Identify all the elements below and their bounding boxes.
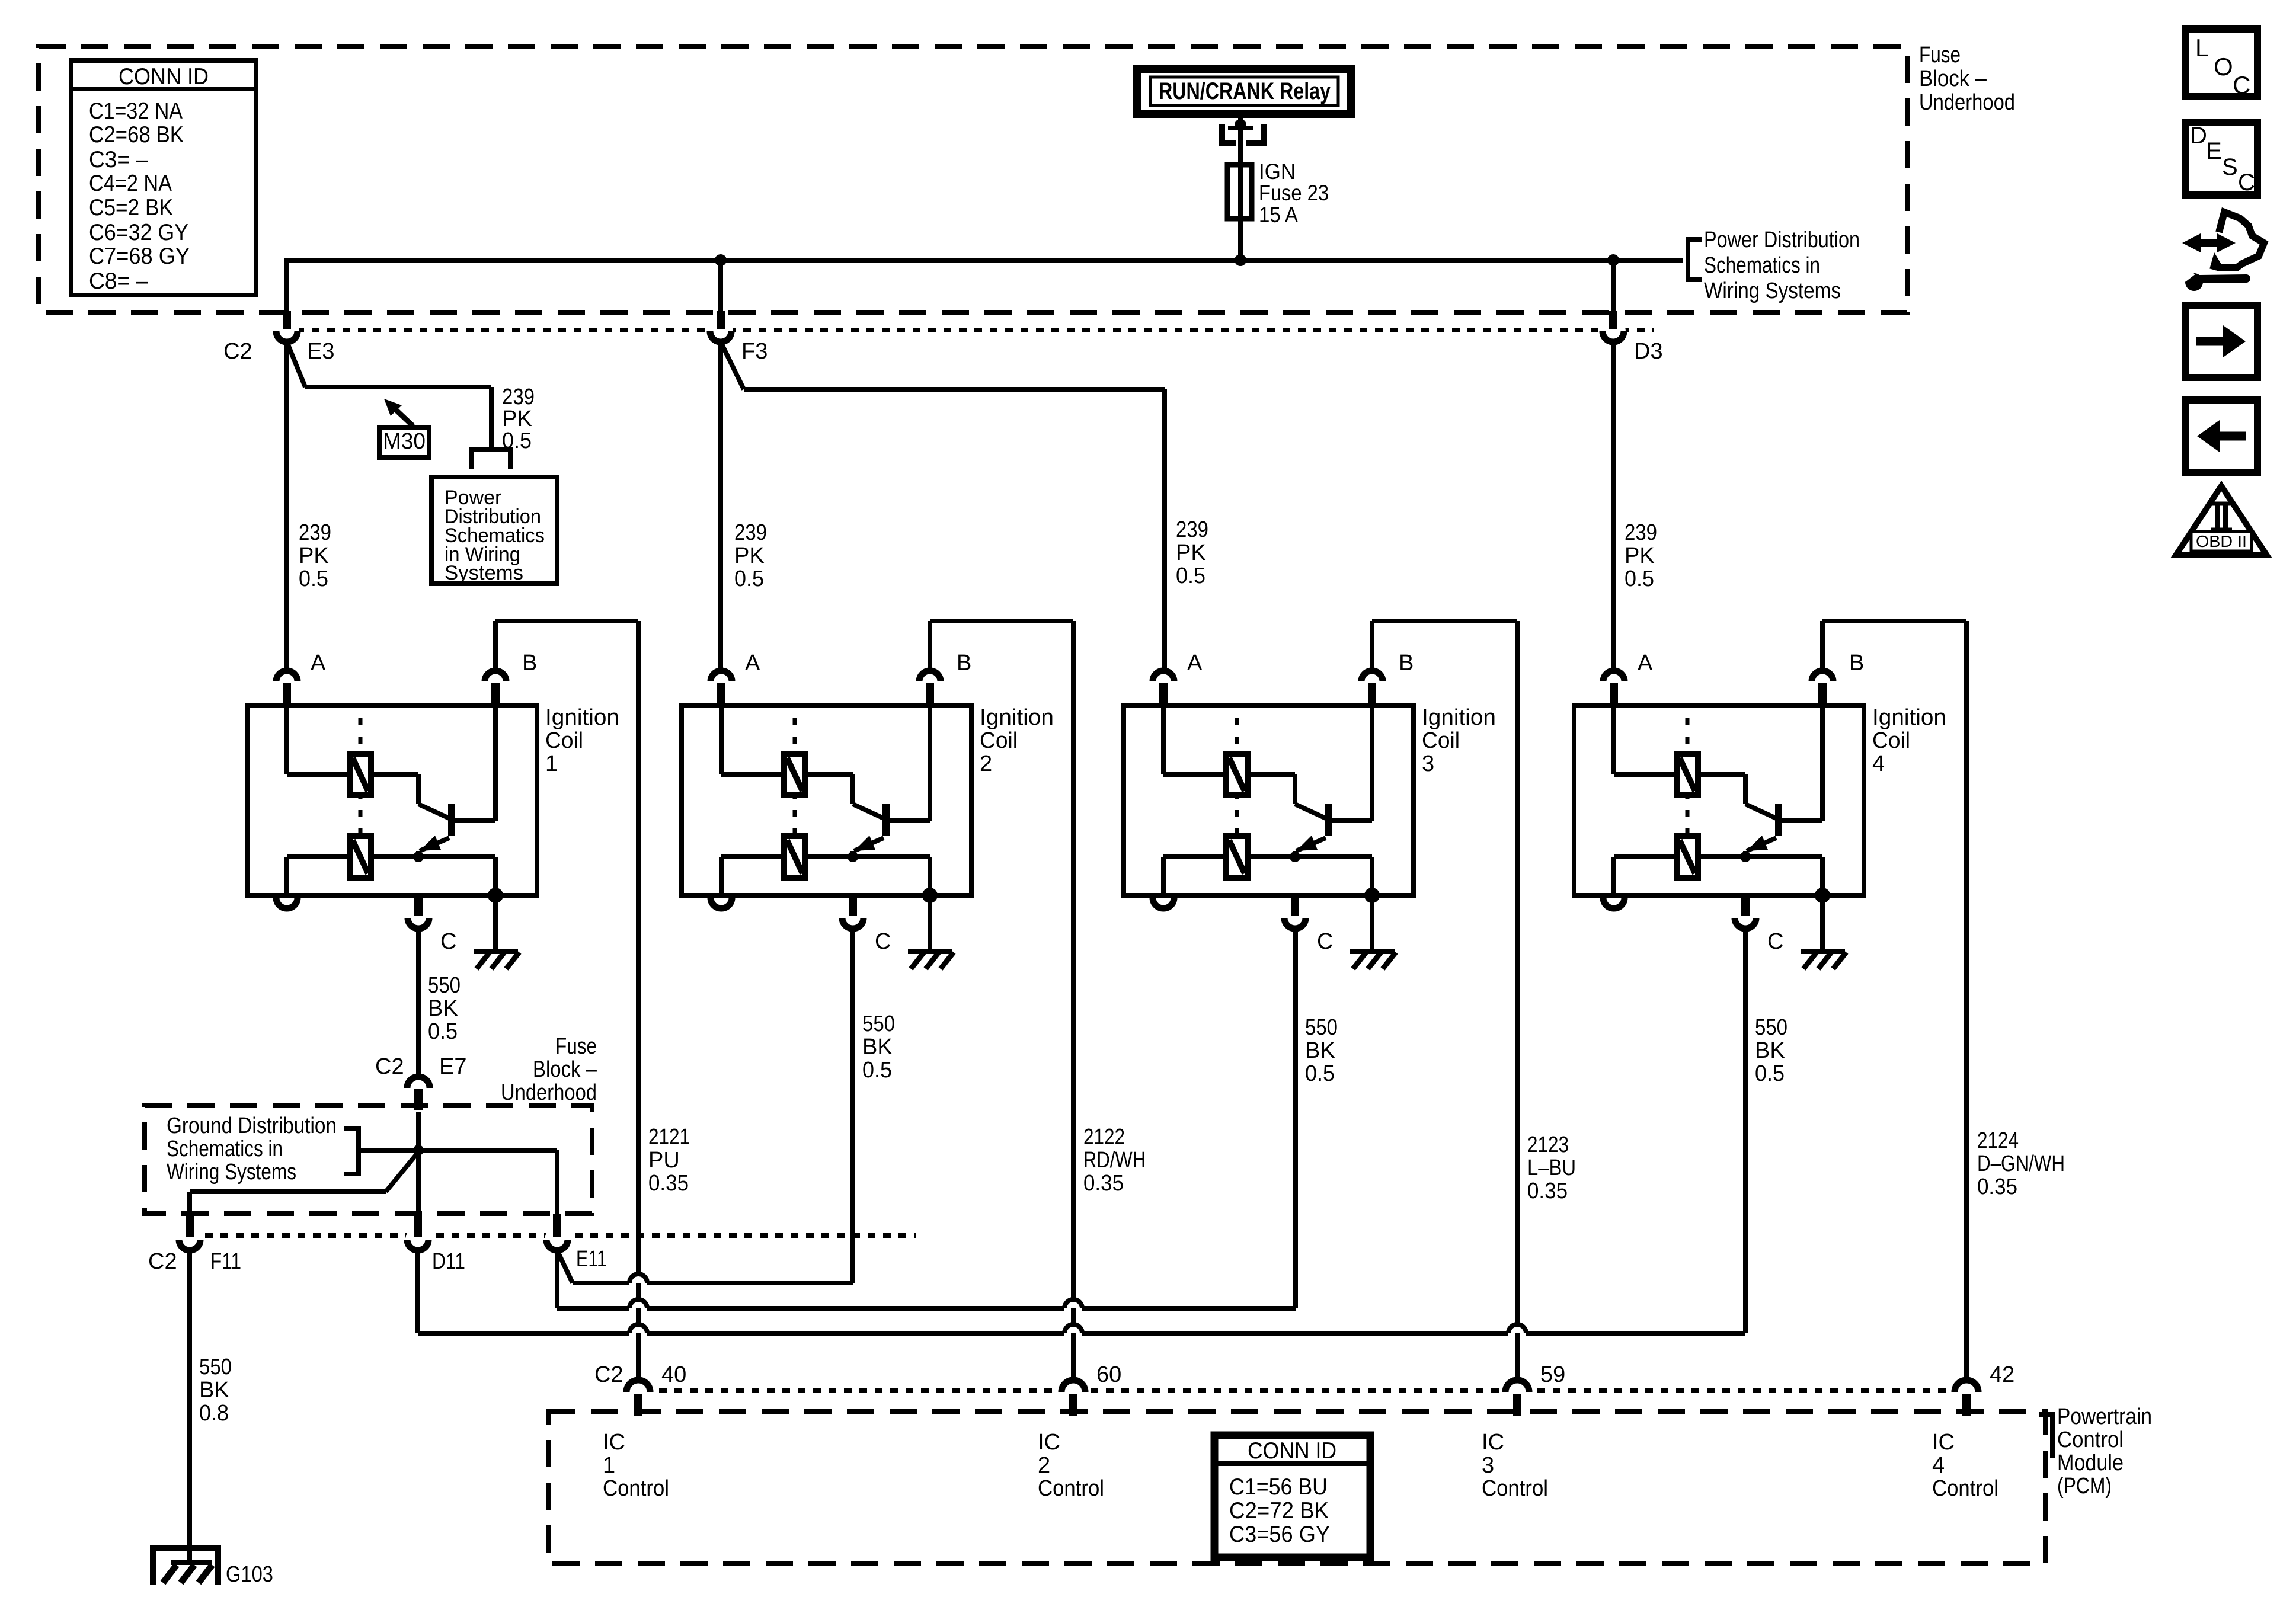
connector PCM pin 42 — [1953, 1362, 2014, 1416]
label Fuse Block - Underhood (top box) — [1919, 43, 2015, 115]
wire from relay to fuse — [1238, 114, 1243, 260]
svg-text:RD/WH: RD/WH — [1083, 1148, 1146, 1173]
connector ID table (PCM) — [1214, 1435, 1370, 1557]
svg-text:F11: F11 — [210, 1249, 241, 1274]
wire label 239 PK 0.5 (coil 1) — [299, 520, 331, 591]
wire E3 branch diagonal — [287, 342, 491, 449]
wire bus to F3 — [718, 260, 723, 313]
svg-text:C4=2 NA: C4=2 NA — [89, 171, 172, 196]
svg-text:Control: Control — [603, 1476, 669, 1501]
junction dot bus/F3 — [715, 254, 727, 266]
power distribution schematics box — [431, 477, 557, 584]
svg-text:C3= –: C3= – — [89, 147, 148, 172]
connector pin B coil 4 — [1812, 651, 1864, 705]
label ignition coil 2 — [980, 705, 1054, 776]
junction dot ground splice — [413, 1145, 424, 1156]
wire splice diagonal to F11 — [190, 1152, 418, 1215]
ground G103 — [153, 1548, 273, 1587]
transistor Q1 base bar — [448, 804, 455, 836]
PCM dashed boundary box — [548, 1411, 2045, 1564]
wire hop row2 over pin40 wire — [629, 1299, 647, 1308]
label ignition coil 3 — [1422, 705, 1496, 776]
svg-text:239: 239 — [502, 385, 535, 409]
wire coil 2 pin A to primary winding — [721, 705, 784, 774]
connector pin A coil 1 — [276, 651, 326, 705]
wire coil 1 pin C to E7 (550 BK) — [416, 929, 421, 1077]
wire label 239 PK 0.5 (coil 2) — [734, 520, 767, 591]
svg-text:IC: IC — [1038, 1430, 1060, 1455]
wire hop row3 over pin40 wire — [629, 1324, 647, 1333]
wire coil 2 transistor to pin B — [890, 705, 930, 821]
svg-text:Coil: Coil — [1872, 728, 1910, 753]
svg-text:0.5: 0.5 — [1305, 1061, 1335, 1086]
junction dot coil 4 ground node — [1815, 888, 1830, 903]
svg-text:0.5: 0.5 — [1176, 564, 1205, 588]
icon LOC box — [2185, 29, 2257, 99]
svg-text:CONN ID: CONN ID — [1248, 1438, 1336, 1464]
junction dot below relay — [1235, 119, 1246, 131]
wire coil 4 pin B to PCM (control) — [1822, 621, 1966, 1380]
connector pin A coil 2 — [711, 651, 760, 705]
svg-text:E: E — [2206, 138, 2222, 164]
connector coil 1 bottom left pin — [276, 898, 298, 908]
svg-text:Wiring Systems: Wiring Systems — [1704, 279, 1841, 303]
wire coil 3 secondary row — [1248, 857, 1372, 895]
wire coil 1 pin A to primary winding — [287, 705, 350, 774]
PCM connector C2 dotted line (row 3) — [628, 1388, 1956, 1393]
svg-text:59: 59 — [1540, 1362, 1565, 1387]
fuse block underhood dashed boundary box (lower-left) — [145, 1106, 592, 1214]
svg-text:1: 1 — [545, 751, 558, 776]
wire E11 diagonal to row 1 — [557, 1250, 573, 1283]
wire label 550 BK 0.5 (coil 2) — [862, 1012, 895, 1083]
svg-text:3: 3 — [1482, 1453, 1494, 1478]
ground row 3 wire (D11 to coil 4) — [418, 1331, 1745, 1336]
junction dot bus/D3 — [1607, 254, 1619, 266]
ignition feed bus wire — [287, 258, 1683, 263]
wire hop row3 over pin60 wire — [1064, 1324, 1082, 1333]
svg-text:C: C — [875, 929, 891, 954]
transistor Q1 emitter arrow — [418, 836, 449, 857]
svg-text:C: C — [2238, 169, 2255, 196]
svg-text:239: 239 — [734, 520, 767, 545]
svg-text:C3=56 GY: C3=56 GY — [1229, 1522, 1330, 1547]
icon OBD II triangle — [2176, 486, 2266, 555]
wire coil 1 secondary row — [371, 857, 495, 895]
connector pin E3 (fuse block C2) — [223, 311, 334, 364]
svg-text:B: B — [522, 651, 537, 676]
svg-text:Wiring Systems: Wiring Systems — [167, 1160, 296, 1185]
wire coil 4 secondary left — [1614, 857, 1677, 895]
wire coil 2 primary to transistor — [805, 774, 884, 818]
coil 1 core dashed line — [359, 718, 363, 883]
wire coil 2 pin C down (550 BK) — [850, 929, 855, 1283]
svg-text:Control: Control — [1932, 1476, 1998, 1501]
wire coil 1 pin B to PCM (control) — [495, 621, 638, 1380]
ground row 1 wire (E11 to coil 2) — [573, 1281, 853, 1285]
svg-text:A: A — [745, 651, 760, 676]
svg-text:Ground Distribution: Ground Distribution — [167, 1113, 337, 1138]
ignition coil 3 box — [1124, 705, 1414, 895]
coil 3 secondary winding — [1226, 836, 1248, 878]
svg-text:42: 42 — [1990, 1362, 2014, 1387]
wire label 2123 L-BU 0.35 — [1527, 1132, 1576, 1204]
svg-text:4: 4 — [1932, 1453, 1945, 1478]
svg-text:0.5: 0.5 — [502, 428, 532, 453]
svg-text:Systems: Systems — [445, 562, 523, 584]
connector coil 4 bottom left pin — [1603, 898, 1625, 908]
svg-text:BK: BK — [1755, 1038, 1785, 1063]
svg-text:BK: BK — [428, 996, 458, 1021]
svg-text:C2=68 BK: C2=68 BK — [89, 122, 184, 148]
svg-text:Ignition: Ignition — [545, 705, 619, 730]
svg-text:A: A — [1638, 651, 1653, 676]
svg-text:M30: M30 — [383, 429, 426, 454]
svg-text:2: 2 — [980, 751, 992, 776]
wire label 550 BK 0.5 (coil 1) — [428, 973, 461, 1044]
svg-text:E3: E3 — [307, 339, 334, 364]
connector PCM pin 40 — [594, 1362, 686, 1416]
M30 arrow — [384, 399, 413, 426]
label IC 2 Control — [1038, 1430, 1104, 1501]
icon right arrow box — [2185, 305, 2257, 377]
connector pin A coil 4 — [1603, 651, 1653, 705]
junction dot coil 2 ground node — [922, 888, 938, 903]
svg-text:D: D — [2190, 123, 2207, 149]
label fuse block underhood (lower) — [501, 1034, 597, 1105]
ground symbol coil 2 — [908, 895, 954, 969]
svg-text:IC: IC — [1482, 1430, 1504, 1455]
svg-text:550: 550 — [199, 1355, 232, 1379]
fuse F23 - IGN Fuse 23 15 A — [1227, 159, 1329, 227]
wire label 550 BK 0.5 (coil 3) — [1305, 1015, 1338, 1086]
svg-text:2122: 2122 — [1083, 1125, 1125, 1150]
svg-text:IC: IC — [1932, 1430, 1955, 1455]
wire hop row2 over pin60 wire — [1064, 1299, 1082, 1308]
svg-text:IC: IC — [603, 1430, 625, 1455]
ignition coil 2 box — [682, 705, 971, 895]
wire splice to E11 — [555, 1150, 559, 1215]
wire coil 3 primary to transistor — [1248, 774, 1326, 818]
svg-text:RUN/CRANK Relay: RUN/CRANK Relay — [1159, 78, 1331, 104]
svg-text:L: L — [2195, 34, 2209, 62]
svg-text:Control: Control — [2057, 1427, 2124, 1452]
wire coil 3 pin A to primary winding — [1163, 705, 1226, 774]
svg-text:0.8: 0.8 — [199, 1401, 229, 1426]
label powertrain control module — [2057, 1404, 2152, 1499]
svg-text:PK: PK — [734, 543, 765, 568]
wire coil 4 primary to transistor — [1698, 774, 1776, 818]
wire coil 3 secondary left — [1163, 857, 1226, 895]
transistor Q2 base bar — [882, 804, 890, 836]
wire label 2124 D-GN/WH 0.35 — [1977, 1128, 2065, 1199]
junction dot coil 1 emitter/secondary — [413, 852, 424, 862]
wire label 239 PK 0.5 (coil 4) — [1625, 520, 1657, 591]
svg-text:239: 239 — [1625, 520, 1657, 545]
connector C2 dotted line (row 2) — [190, 1233, 916, 1238]
wire label 2121 PU 0.35 — [648, 1125, 690, 1196]
svg-text:Ignition: Ignition — [1872, 705, 1946, 730]
connector pin C coil 1 — [408, 897, 456, 954]
connector pin B coil 2 — [919, 651, 971, 705]
wire coil 4 pin A to primary winding — [1614, 705, 1677, 774]
transistor Q3 base bar — [1325, 804, 1332, 836]
wire E11 down to row 2 — [555, 1250, 559, 1308]
label M30 splice box — [379, 428, 429, 457]
label ignition coil 4 — [1872, 705, 1946, 776]
wire coil 1 secondary left — [287, 857, 350, 895]
svg-text:BK: BK — [1305, 1038, 1335, 1063]
ignition coil 1 box — [247, 705, 537, 895]
svg-text:C2: C2 — [594, 1362, 623, 1387]
wire coil 4 secondary row — [1698, 857, 1822, 895]
svg-text:F3: F3 — [741, 339, 768, 364]
connector pin F3 (fuse block C2) — [708, 311, 768, 364]
svg-text:C: C — [2233, 71, 2250, 99]
svg-text:550: 550 — [428, 973, 461, 998]
junction dot coil 3 emitter/secondary — [1290, 852, 1300, 862]
connector PCM pin 60 — [1060, 1362, 1121, 1416]
labels connector row 2 — [148, 1247, 607, 1274]
label IC 4 Control — [1932, 1430, 1998, 1501]
svg-text:B: B — [1849, 651, 1864, 676]
wire E7 to ground splice — [416, 1112, 421, 1215]
svg-text:B: B — [957, 651, 971, 676]
label ground distribution schematics — [167, 1113, 337, 1185]
svg-text:Power Distribution: Power Distribution — [1704, 228, 1860, 252]
svg-text:C7=68 GY: C7=68 GY — [89, 244, 190, 269]
junction dot coil 2 emitter/secondary — [848, 852, 858, 862]
ground symbol coil 4 — [1801, 895, 1846, 969]
svg-text:PK: PK — [502, 406, 532, 431]
svg-text:Fuse: Fuse — [1919, 43, 1961, 68]
wire label 550 BK 0.8 — [199, 1355, 232, 1426]
ignition coil 4 box — [1574, 705, 1864, 895]
svg-text:(PCM): (PCM) — [2057, 1474, 2112, 1499]
svg-text:550: 550 — [1305, 1015, 1338, 1040]
svg-text:0.35: 0.35 — [1977, 1174, 2017, 1199]
svg-text:D–GN/WH: D–GN/WH — [1977, 1151, 2065, 1176]
svg-text:1: 1 — [603, 1453, 615, 1478]
coil 1 primary winding — [350, 754, 371, 795]
ground symbol coil 3 — [1350, 895, 1396, 969]
icon left arrow box — [2185, 400, 2257, 472]
svg-text:C8= –: C8= – — [89, 268, 148, 294]
svg-text:Underhood: Underhood — [501, 1080, 597, 1105]
fuse holder clip symbol — [1219, 124, 1267, 145]
svg-text:Ignition: Ignition — [1422, 705, 1496, 730]
transistor Q3 emitter arrow — [1295, 836, 1326, 857]
svg-text:A: A — [1187, 651, 1203, 676]
ground row 2 wire (E11 to coil 3) — [557, 1306, 1296, 1311]
connector coil 2 bottom left pin — [711, 898, 732, 908]
connector pin D11 (fuse block C2) — [405, 1214, 430, 1252]
svg-text:0.35: 0.35 — [1527, 1179, 1568, 1204]
svg-text:Fuse 23: Fuse 23 — [1259, 181, 1329, 205]
fuse block underhood dashed boundary box (top) — [39, 47, 1907, 312]
svg-text:C2: C2 — [375, 1054, 404, 1079]
connector pin E11 (fuse block C2) — [545, 1214, 570, 1252]
wire coil 3 transistor to pin B — [1332, 705, 1372, 821]
connector pin B coil 1 — [485, 651, 537, 705]
transistor Q4 base bar — [1775, 804, 1782, 836]
svg-text:Coil: Coil — [1422, 728, 1460, 753]
svg-text:PK: PK — [1176, 540, 1206, 565]
svg-text:40: 40 — [661, 1362, 686, 1387]
wire F11 to G103 (550 BK 0.8) — [187, 1250, 192, 1563]
coil 2 primary winding — [784, 754, 805, 795]
coil 4 secondary winding — [1677, 836, 1698, 878]
wire label 239 PK 0.5 (M30 branch) — [502, 385, 535, 453]
svg-text:Underhood: Underhood — [1919, 90, 2015, 115]
junction dot coil 1 ground node — [488, 888, 503, 903]
svg-text:Ignition: Ignition — [980, 705, 1054, 730]
svg-text:Powertrain: Powertrain — [2057, 1404, 2152, 1429]
connector pin B coil 3 — [1361, 651, 1414, 705]
svg-text:BK: BK — [862, 1035, 893, 1060]
wire F3 to coil 2 pin A — [718, 342, 723, 671]
svg-text:550: 550 — [862, 1012, 895, 1036]
connector C2 dotted line (row 1) — [296, 328, 1654, 332]
svg-text:3: 3 — [1422, 751, 1434, 776]
svg-text:B: B — [1399, 651, 1414, 676]
coil 3 core dashed line — [1235, 718, 1239, 883]
bracket ground distribution — [344, 1129, 359, 1174]
wire coil 1 transistor to pin B — [455, 705, 495, 821]
svg-text:C1=56 BU: C1=56 BU — [1229, 1474, 1328, 1500]
connector pin C coil 4 — [1735, 897, 1783, 954]
svg-text:PK: PK — [299, 543, 329, 568]
svg-text:Schematics in: Schematics in — [1704, 253, 1820, 278]
wire coil 3 pin B to PCM (control) — [1372, 621, 1517, 1380]
svg-text:PK: PK — [1625, 543, 1655, 568]
svg-text:C2: C2 — [148, 1249, 177, 1274]
connector pin D3 (fuse block C2) — [1601, 311, 1663, 364]
svg-text:4: 4 — [1872, 751, 1885, 776]
label power distribution schematics (top right) — [1704, 228, 1860, 303]
connector pin C coil 3 — [1284, 897, 1333, 954]
svg-text:550: 550 — [1755, 1015, 1787, 1040]
wire coil 3 pin C down (550 BK) — [1293, 929, 1298, 1308]
svg-text:PU: PU — [648, 1148, 680, 1173]
wire label 239 PK 0.5 (coil 3) — [1176, 517, 1208, 588]
svg-text:0.5: 0.5 — [734, 566, 764, 591]
svg-text:CONN ID: CONN ID — [119, 64, 209, 89]
svg-text:0.5: 0.5 — [1625, 566, 1654, 591]
svg-text:S: S — [2222, 154, 2238, 180]
coil 4 core dashed line — [1686, 718, 1690, 883]
svg-text:C6=32 GY: C6=32 GY — [89, 220, 188, 245]
connector ID table (fuse block) — [71, 60, 256, 295]
svg-text:Module: Module — [2057, 1451, 2124, 1475]
wire E3 to coil 1 pin A — [284, 342, 289, 671]
transistor Q2 emitter arrow — [853, 836, 884, 857]
wire bus to D3 — [1611, 260, 1616, 313]
svg-text:2: 2 — [1038, 1453, 1050, 1478]
label IC 3 Control — [1482, 1430, 1548, 1501]
wire D11 to ground row 3 — [415, 1250, 420, 1333]
svg-text:C2=72 BK: C2=72 BK — [1229, 1498, 1329, 1523]
wire coil 1 primary to transistor — [371, 774, 449, 818]
svg-text:BK: BK — [199, 1378, 229, 1403]
svg-text:C2: C2 — [223, 339, 252, 364]
connector coil 3 bottom left pin — [1153, 898, 1174, 908]
svg-text:OBD II: OBD II — [2196, 532, 2247, 550]
svg-text:C1=32 NA: C1=32 NA — [89, 98, 183, 124]
junction dot coil 3 ground node — [1364, 888, 1380, 903]
coil 2 secondary winding — [784, 836, 805, 878]
svg-text:2124: 2124 — [1977, 1128, 2019, 1153]
coil 3 primary winding — [1226, 754, 1248, 795]
svg-text:2121: 2121 — [648, 1125, 690, 1150]
wire coil 2 pin B to PCM (control) — [930, 621, 1073, 1380]
connector pin E7 (fuse block C2) — [375, 1054, 466, 1110]
bracket to power distribution box — [472, 449, 510, 469]
svg-text:0.5: 0.5 — [428, 1019, 458, 1044]
svg-text:D3: D3 — [1634, 339, 1663, 364]
wire bus to E3 — [284, 258, 289, 313]
svg-text:0.35: 0.35 — [1083, 1171, 1124, 1196]
svg-text:L–BU: L–BU — [1527, 1156, 1576, 1180]
wire label 2122 RD/WH 0.35 — [1083, 1125, 1146, 1196]
wire F3 branch to coil 3 — [721, 342, 1165, 668]
bracket to power distribution schematics (top right) — [1688, 239, 1702, 280]
coil 1 secondary winding — [350, 836, 371, 878]
svg-text:Coil: Coil — [980, 728, 1018, 753]
svg-text:Fuse: Fuse — [555, 1034, 597, 1059]
svg-text:Schematics in: Schematics in — [167, 1137, 283, 1161]
wire hop row1 over pin40 wire — [629, 1274, 647, 1283]
svg-text:C: C — [1767, 929, 1783, 954]
connector pin F11 (fuse block C2) — [177, 1214, 202, 1252]
svg-text:0.5: 0.5 — [862, 1058, 892, 1083]
svg-text:0.5: 0.5 — [299, 566, 328, 591]
svg-text:C: C — [440, 929, 456, 954]
svg-text:A: A — [311, 651, 326, 676]
svg-text:E7: E7 — [439, 1054, 466, 1079]
wire coil 2 secondary left — [721, 857, 784, 895]
bracket PCM label — [2039, 1414, 2052, 1458]
coil 4 primary winding — [1677, 754, 1698, 795]
svg-text:C: C — [1317, 929, 1333, 954]
icon harness routing (arrows and wrench) — [2180, 212, 2264, 291]
connector pin C coil 2 — [842, 897, 891, 954]
svg-text:60: 60 — [1096, 1362, 1121, 1387]
junction dot coil 4 emitter/secondary — [1740, 852, 1751, 862]
connector pin A coil 3 — [1153, 651, 1203, 705]
icon DESC box — [2185, 123, 2257, 196]
wire hop row3 over pin59 wire — [1508, 1324, 1526, 1333]
svg-text:Control: Control — [1038, 1476, 1104, 1501]
svg-text:15 A: 15 A — [1259, 203, 1298, 227]
svg-text:O: O — [2214, 53, 2233, 81]
wire coil 4 pin C down (550 BK) — [1743, 929, 1748, 1333]
ground symbol coil 1 — [474, 895, 519, 969]
connector PCM pin 59 — [1504, 1362, 1565, 1416]
svg-text:239: 239 — [299, 520, 331, 545]
wire coil 4 transistor to pin B — [1782, 705, 1822, 821]
svg-text:G103: G103 — [226, 1562, 273, 1587]
svg-text:E11: E11 — [576, 1247, 607, 1272]
svg-text:Block –: Block – — [1919, 66, 1987, 91]
svg-text:Control: Control — [1482, 1476, 1548, 1501]
svg-text:D11: D11 — [432, 1249, 465, 1274]
coil 2 core dashed line — [793, 718, 797, 883]
svg-text:Block –: Block – — [533, 1057, 597, 1082]
svg-text:0.5: 0.5 — [1755, 1061, 1785, 1086]
svg-text:C5=2 BK: C5=2 BK — [89, 195, 173, 220]
transistor Q4 emitter arrow — [1745, 836, 1776, 857]
